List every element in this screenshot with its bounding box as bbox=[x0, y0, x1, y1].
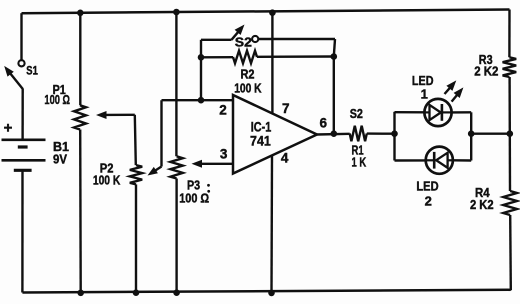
label R3 bbox=[479, 52, 493, 67]
node LED right bbox=[468, 130, 475, 137]
label pin 7 bbox=[282, 101, 290, 116]
wire LED2 branch right bbox=[454, 159, 472, 162]
wire feedback right vertical bbox=[333, 57, 335, 134]
svg-text:100 Ω: 100 Ω bbox=[179, 190, 209, 205]
node top rail / P3 bbox=[173, 9, 180, 16]
node top rail / pin 7 bbox=[269, 9, 276, 16]
svg-text:+: + bbox=[4, 120, 13, 137]
label pin 4 bbox=[281, 150, 289, 165]
label P1 bbox=[53, 82, 66, 97]
LED LED1 cathode bar bbox=[441, 104, 444, 121]
battery B1 minus mark bbox=[18, 145, 28, 148]
label 1 K bbox=[352, 154, 367, 169]
wire top supply rail bbox=[22, 10, 510, 14]
battery B1 plate 2 (long) bbox=[2, 159, 46, 162]
wire LED1 branch right bbox=[452, 111, 471, 113]
label 2 K2 (R4) bbox=[470, 197, 494, 212]
switch S1 lever with arrowhead bbox=[4, 66, 23, 89]
node bottom rail / pin 4 bbox=[268, 290, 275, 297]
battery B1 plate 1 (long) bbox=[2, 138, 46, 141]
resistor R3 body bbox=[503, 57, 517, 77]
label 100 &#937; (P1) bbox=[44, 92, 70, 107]
label S2 (output) bbox=[350, 106, 363, 121]
svg-text:1: 1 bbox=[421, 87, 428, 102]
svg-text:6: 6 bbox=[320, 115, 328, 130]
wire right rail lower (node to R4) bbox=[509, 134, 512, 191]
svg-text:S1: S1 bbox=[26, 63, 38, 77]
battery B1 plate 3 (short) bbox=[14, 169, 32, 172]
wire R1 to LED node bbox=[367, 132, 395, 134]
svg-text:100 K: 100 K bbox=[93, 173, 121, 188]
node pin2 / feedback bbox=[198, 97, 205, 104]
svg-text:7: 7 bbox=[282, 101, 290, 116]
node bottom rail / P1 bbox=[77, 290, 84, 297]
svg-text:LED: LED bbox=[416, 178, 438, 193]
svg-text:S2: S2 bbox=[350, 106, 363, 121]
label 9V bbox=[53, 151, 67, 166]
node right rail bbox=[507, 130, 514, 137]
wire op-amp pin 2 input bbox=[162, 99, 234, 101]
wire LED node to right rail bbox=[471, 132, 510, 134]
wire right rail mid (R3 to node) bbox=[508, 77, 511, 134]
node bottom rail / P2 bbox=[133, 289, 140, 296]
potentiometer P1 body bbox=[74, 105, 86, 129]
LED LED1 wire through bbox=[425, 111, 452, 113]
label 100 K (R2) bbox=[234, 80, 262, 95]
wire S2 left horizontal bbox=[201, 39, 232, 41]
switch S2 lever with arrowhead bbox=[232, 25, 245, 40]
node R2-S2 left bbox=[198, 54, 205, 61]
label 100 &#937; (P3) bbox=[179, 190, 209, 205]
label 100 K (P2) bbox=[93, 173, 121, 188]
wire LED box left vertical bbox=[393, 112, 395, 161]
svg-text:100 K: 100 K bbox=[234, 80, 262, 95]
label LED (1) bbox=[412, 73, 434, 88]
svg-text:2: 2 bbox=[219, 103, 227, 118]
LED LED1 diode triangle bbox=[430, 105, 441, 120]
LED LED2 cathode bar bbox=[433, 152, 436, 169]
svg-text:2 K2: 2 K2 bbox=[474, 64, 498, 79]
wire op-amp pin 7 to top rail bbox=[271, 13, 273, 114]
svg-text:9V: 9V bbox=[53, 151, 67, 166]
svg-text:2: 2 bbox=[425, 194, 432, 209]
node R2 / S2 right bbox=[331, 53, 338, 60]
label 2 K2 (R3) bbox=[474, 64, 498, 79]
node bottom rail / P3 bbox=[173, 289, 180, 296]
LED LED1 light arrow 2 bbox=[452, 87, 464, 101]
wire R2 left bbox=[201, 56, 233, 58]
svg-text:2 K2: 2 K2 bbox=[470, 197, 494, 212]
wire P1 to bottom rail bbox=[79, 130, 82, 293]
wire LED2 branch left bbox=[395, 159, 426, 162]
label R4 bbox=[475, 185, 490, 200]
P3 wiper arrow (from op-amp pin 3) bbox=[192, 160, 234, 168]
wire P3 to bottom rail bbox=[175, 179, 177, 293]
LED LED1 circle bbox=[424, 99, 451, 126]
svg-text:S2: S2 bbox=[235, 34, 252, 49]
wire op-amp pin 4 to bottom rail bbox=[270, 156, 273, 293]
node output / feedback bbox=[331, 130, 338, 137]
label R2 bbox=[241, 66, 255, 81]
wire left rail (top rail to S1) bbox=[20, 13, 22, 60]
svg-text:741: 741 bbox=[250, 133, 271, 149]
wire right rail bottom (R4 to bottom rail) bbox=[509, 215, 512, 290]
label 1 (LED1) bbox=[421, 87, 428, 102]
wire top rail to P1 bbox=[79, 13, 81, 106]
LED LED2 diode triangle bbox=[436, 153, 447, 168]
label IC-1 bbox=[251, 118, 272, 134]
label S2 (feedback switch) bbox=[235, 34, 252, 49]
svg-text:4: 4 bbox=[281, 150, 289, 165]
wire P1 wiper to P2 top bbox=[135, 115, 136, 165]
potentiometer P2 body bbox=[130, 165, 142, 184]
node LED left bbox=[391, 130, 398, 137]
op-amp IC-1 triangle bbox=[233, 95, 317, 174]
label R1 bbox=[352, 143, 364, 158]
label 741 bbox=[250, 133, 271, 149]
svg-text:100 Ω: 100 Ω bbox=[44, 92, 70, 107]
wire S2 right horizontal bbox=[258, 38, 335, 40]
node top rail / P1 bbox=[77, 10, 84, 17]
label pin 6 bbox=[320, 115, 328, 130]
label LED (2) bbox=[416, 178, 438, 193]
wire right rail upper (top rail to R3) bbox=[508, 10, 511, 58]
switch S1 contact circle bbox=[18, 60, 24, 66]
LED LED1 light arrow 1 bbox=[445, 80, 457, 94]
resistor R1 body bbox=[350, 126, 367, 142]
wire S2 up-left bbox=[200, 40, 202, 58]
P2 wiper arrow bbox=[148, 100, 162, 175]
wire battery to bottom rail bbox=[21, 170, 24, 292]
svg-text:3: 3 bbox=[220, 147, 228, 162]
label P2 bbox=[100, 161, 114, 176]
potentiometer P3 body bbox=[170, 156, 182, 178]
svg-text:R2: R2 bbox=[241, 66, 255, 81]
wire S1 lever to battery bbox=[21, 89, 24, 140]
wire bottom rail bbox=[22, 290, 510, 293]
label B1 bbox=[53, 139, 69, 154]
wire P2 to bottom rail bbox=[135, 184, 137, 292]
resistor R2 body bbox=[233, 51, 257, 63]
label S1 bbox=[26, 63, 38, 77]
P1 wiper arrow bbox=[96, 111, 135, 119]
LED LED2 circle bbox=[426, 147, 453, 174]
wire top rail to P3 bbox=[175, 12, 177, 156]
svg-text:1 K: 1 K bbox=[352, 154, 367, 169]
wire op-amp output bbox=[317, 133, 350, 136]
label 2 (LED2) bbox=[425, 194, 432, 209]
wire LED box right vertical bbox=[470, 112, 472, 160]
switch S2 contact circle bbox=[252, 36, 258, 42]
resistor R4 body bbox=[503, 191, 517, 215]
label P3 bbox=[187, 178, 200, 193]
wire S2 corner down bbox=[334, 39, 335, 57]
wire feedback left vertical bbox=[200, 57, 202, 100]
label P3 colon mark bbox=[207, 184, 210, 193]
label pin 3 bbox=[220, 147, 228, 162]
label pin 2 bbox=[219, 103, 227, 118]
LED LED2 wire through bbox=[427, 159, 453, 161]
wire R2 right bbox=[257, 55, 334, 58]
wire LED1 branch left bbox=[395, 111, 425, 114]
label battery + sign bbox=[4, 120, 13, 137]
